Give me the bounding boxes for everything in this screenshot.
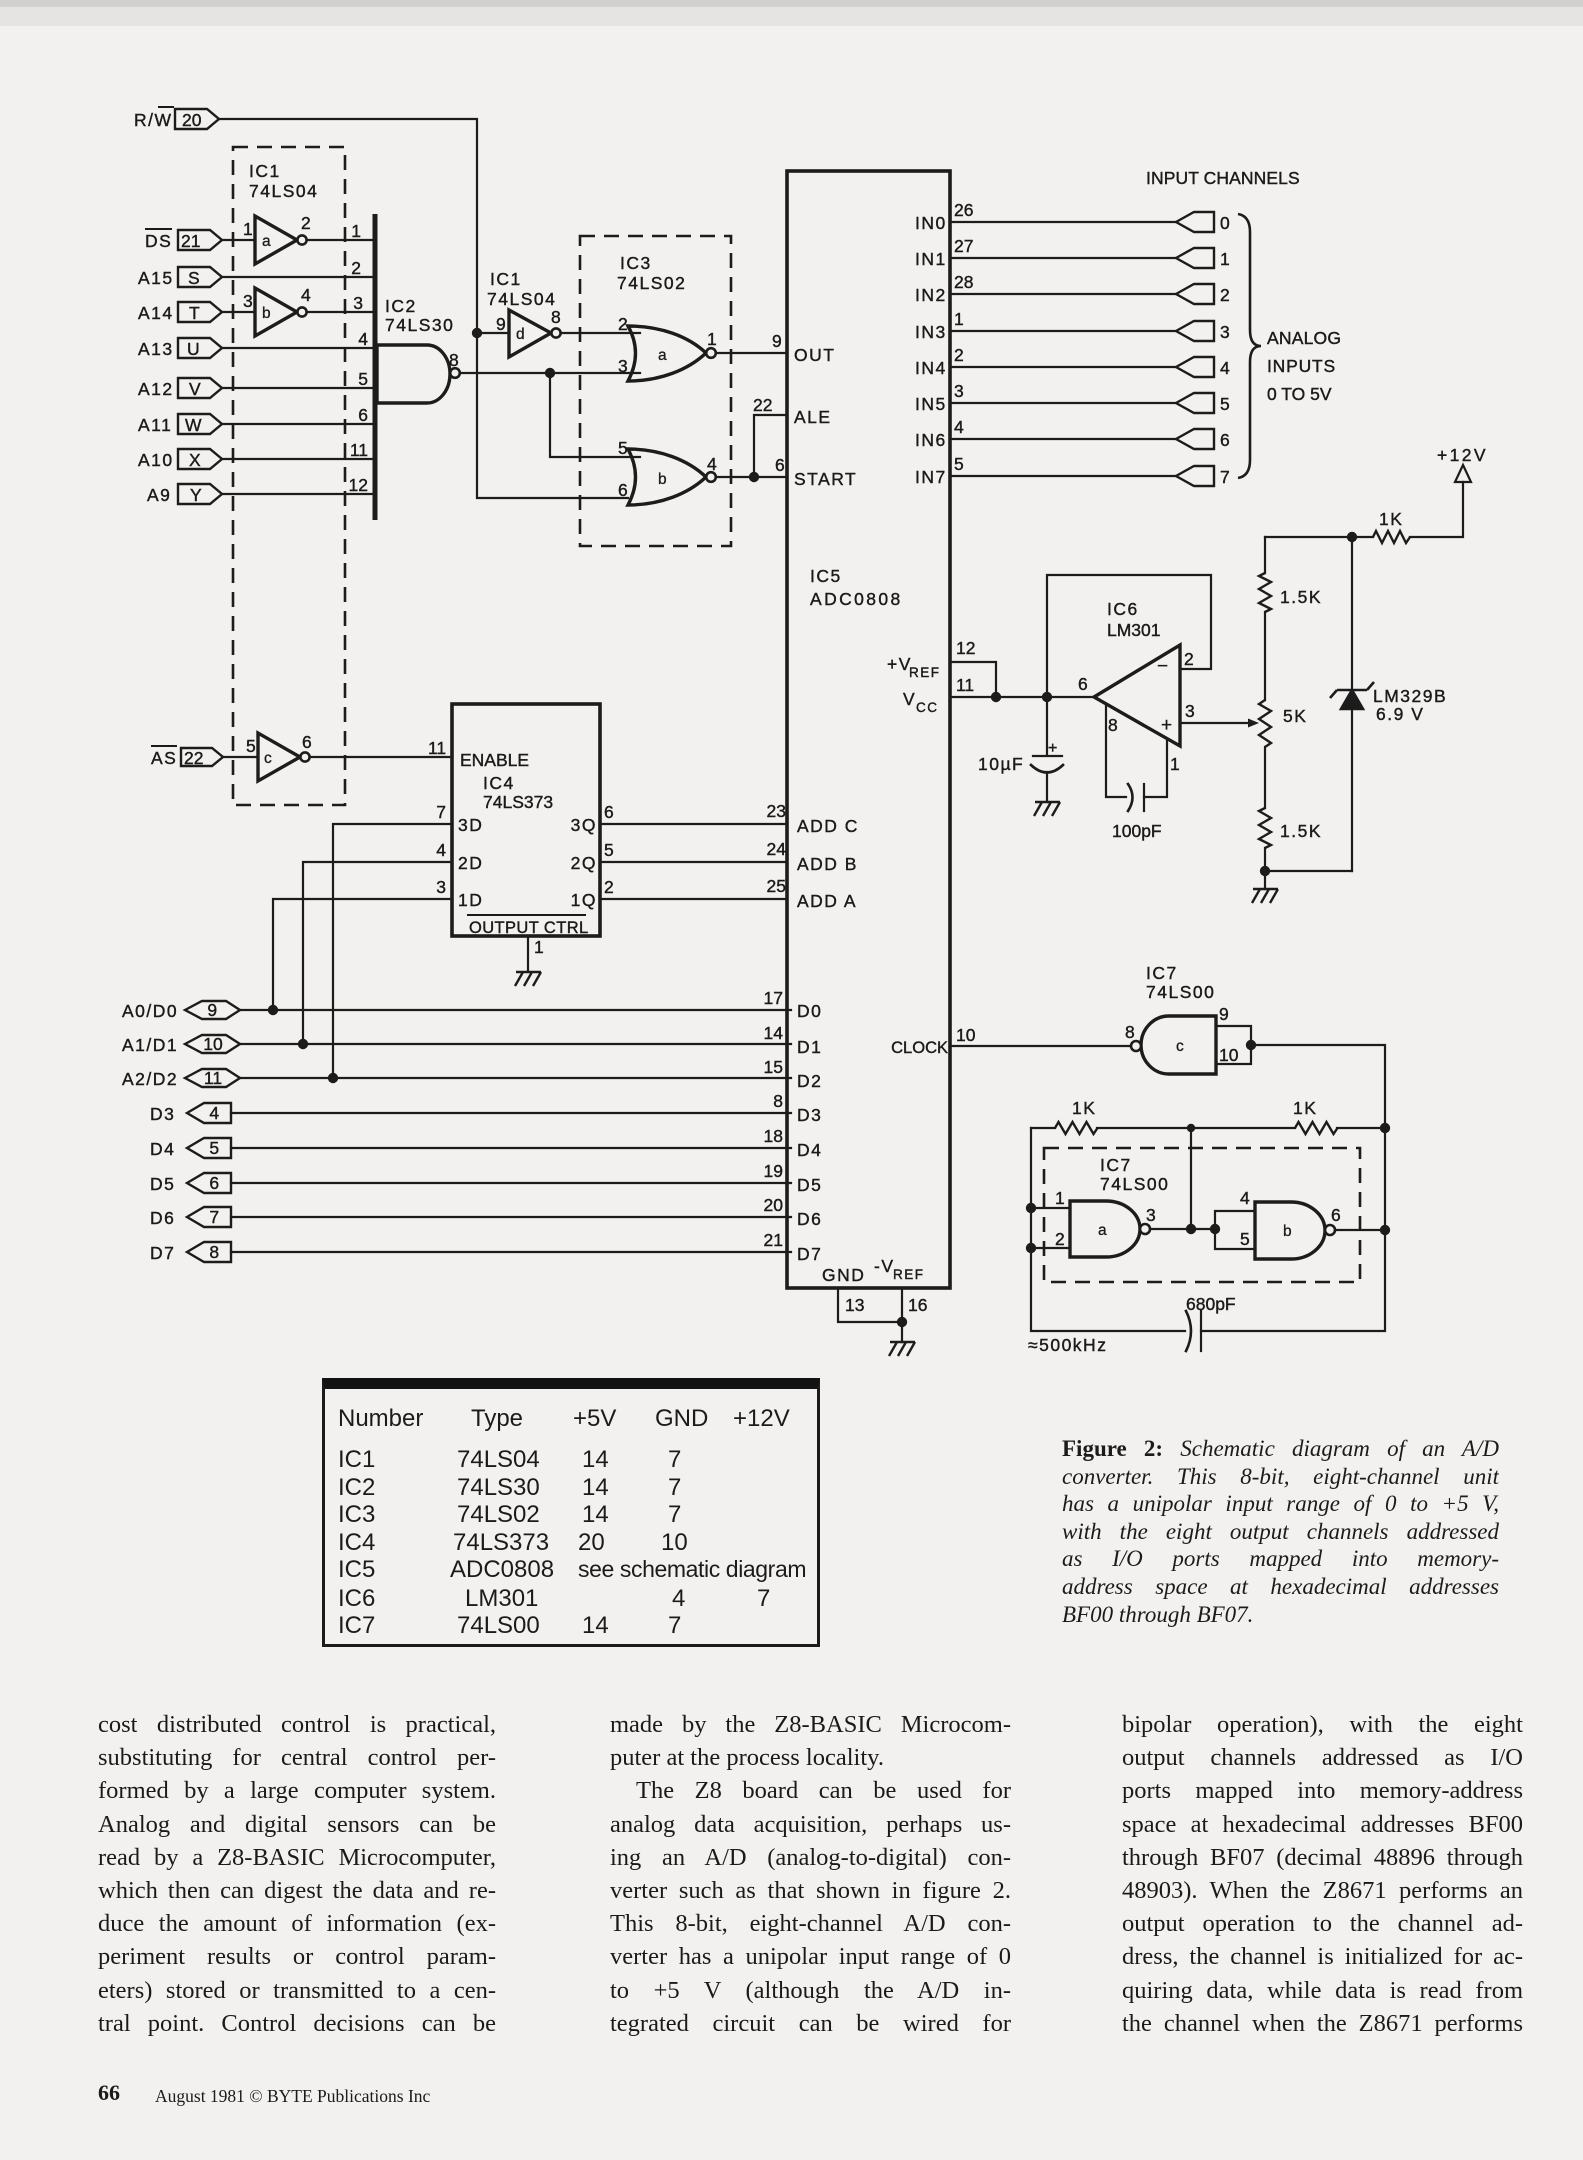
svg-text:ALE: ALE — [794, 407, 832, 427]
svg-text:GND: GND — [822, 1265, 865, 1285]
svg-text:IC7: IC7 — [1146, 963, 1178, 983]
svg-text:8: 8 — [209, 1242, 220, 1262]
svg-text:−: − — [1157, 656, 1168, 677]
svg-text:5: 5 — [604, 840, 614, 860]
svg-text:IN5: IN5 — [915, 394, 947, 414]
svg-text:2: 2 — [1184, 649, 1194, 669]
svg-text:5: 5 — [954, 454, 964, 474]
svg-text:+: + — [1161, 715, 1172, 736]
svg-text:+: + — [1048, 740, 1059, 757]
svg-text:74LS02: 74LS02 — [617, 273, 686, 293]
svg-text:1K: 1K — [1293, 1098, 1317, 1118]
svg-text:AS: AS — [151, 748, 177, 768]
svg-text:A11: A11 — [138, 415, 172, 435]
svg-text:START: START — [794, 469, 857, 489]
svg-text:23: 23 — [767, 801, 786, 821]
svg-text:4: 4 — [707, 454, 717, 474]
svg-text:IC6: IC6 — [1107, 599, 1139, 619]
svg-text:74LS04: 74LS04 — [249, 181, 318, 201]
svg-text:4: 4 — [358, 329, 368, 349]
svg-text:6.9 V: 6.9 V — [1376, 704, 1424, 724]
svg-text:a: a — [1098, 1222, 1107, 1239]
svg-text:8: 8 — [449, 350, 459, 370]
svg-text:1: 1 — [243, 219, 253, 239]
svg-text:6: 6 — [209, 1173, 220, 1193]
svg-text:ADD B: ADD B — [797, 854, 858, 874]
svg-text:24: 24 — [767, 839, 787, 859]
svg-text:3D: 3D — [458, 815, 483, 835]
svg-text:0 TO 5V: 0 TO 5V — [1267, 384, 1332, 404]
svg-text:22: 22 — [184, 748, 203, 768]
svg-text:1: 1 — [351, 221, 361, 241]
svg-text:7: 7 — [209, 1207, 220, 1227]
svg-text:IC3: IC3 — [620, 253, 652, 273]
svg-text:12: 12 — [349, 475, 368, 495]
svg-text:5: 5 — [618, 438, 628, 458]
svg-text:A0/D0: A0/D0 — [122, 1001, 178, 1021]
svg-text:74LS04: 74LS04 — [487, 289, 556, 309]
svg-text:0: 0 — [1220, 213, 1230, 233]
svg-text:3: 3 — [353, 293, 363, 313]
svg-text:2: 2 — [604, 877, 614, 897]
svg-text:8: 8 — [551, 307, 561, 327]
svg-text:CLOCK: CLOCK — [891, 1039, 948, 1057]
svg-text:IN6: IN6 — [915, 430, 947, 450]
svg-text:D5: D5 — [797, 1175, 822, 1195]
svg-text:27: 27 — [954, 236, 973, 256]
svg-text:3: 3 — [243, 291, 253, 311]
svg-text:D0: D0 — [797, 1001, 822, 1021]
svg-text:D7: D7 — [150, 1243, 175, 1263]
svg-text:4: 4 — [209, 1103, 220, 1123]
svg-text:A13: A13 — [138, 339, 174, 359]
svg-text:17: 17 — [764, 988, 783, 1008]
svg-text:9: 9 — [772, 331, 782, 351]
svg-text:11: 11 — [956, 675, 974, 695]
svg-text:b: b — [262, 305, 271, 322]
svg-text:S: S — [188, 268, 201, 288]
svg-text:28: 28 — [954, 272, 973, 292]
svg-text:b: b — [1283, 1223, 1292, 1240]
svg-text:16: 16 — [908, 1295, 927, 1315]
svg-text:7: 7 — [1220, 467, 1230, 487]
svg-text:11: 11 — [350, 440, 368, 460]
svg-text:INPUTS: INPUTS — [1267, 356, 1336, 376]
svg-text:DS: DS — [145, 231, 172, 251]
svg-text:4: 4 — [436, 840, 446, 860]
svg-text:-V: -V — [874, 1256, 895, 1276]
svg-text:2: 2 — [954, 345, 964, 365]
svg-text:U: U — [187, 339, 201, 359]
svg-text:10: 10 — [956, 1025, 976, 1045]
svg-text:Y: Y — [190, 485, 203, 505]
svg-text:D7: D7 — [797, 1244, 822, 1264]
svg-text:a: a — [658, 347, 667, 364]
svg-text:D3: D3 — [797, 1105, 822, 1125]
svg-text:12: 12 — [956, 638, 975, 658]
svg-text:3Q: 3Q — [571, 815, 597, 835]
svg-text:11: 11 — [204, 1068, 222, 1088]
svg-text:IN7: IN7 — [915, 467, 947, 487]
svg-text:X: X — [189, 450, 202, 470]
svg-text:25: 25 — [767, 876, 786, 896]
svg-text:A2/D2: A2/D2 — [122, 1069, 178, 1089]
svg-text:D2: D2 — [797, 1071, 822, 1091]
svg-text:1Q: 1Q — [571, 890, 597, 910]
svg-text:74LS00: 74LS00 — [1146, 982, 1215, 1002]
svg-text:D5: D5 — [150, 1174, 175, 1194]
svg-text:20: 20 — [182, 110, 202, 130]
svg-text:IC7: IC7 — [1100, 1155, 1132, 1175]
svg-text:b: b — [658, 471, 667, 488]
svg-text:1.5K: 1.5K — [1280, 821, 1322, 841]
svg-text:100pF: 100pF — [1112, 821, 1162, 841]
svg-text:c: c — [264, 750, 272, 767]
svg-text:IC1: IC1 — [249, 161, 281, 181]
svg-text:1: 1 — [954, 309, 964, 329]
svg-text:D3: D3 — [150, 1104, 175, 1124]
svg-text:IN2: IN2 — [915, 285, 947, 305]
svg-text:IC1: IC1 — [490, 269, 522, 289]
svg-text:3: 3 — [1220, 322, 1230, 342]
svg-text:10: 10 — [1219, 1045, 1239, 1065]
svg-text:9: 9 — [207, 1000, 218, 1020]
svg-text:9: 9 — [496, 314, 506, 334]
svg-text:6: 6 — [358, 405, 368, 425]
svg-text:REF: REF — [893, 1267, 925, 1282]
svg-text:REF: REF — [909, 665, 941, 680]
svg-text:26: 26 — [954, 200, 973, 220]
svg-text:3: 3 — [1146, 1205, 1156, 1225]
svg-text:D4: D4 — [150, 1139, 175, 1159]
svg-text:A9: A9 — [147, 485, 171, 505]
svg-text:6: 6 — [1220, 430, 1230, 450]
svg-text:A1/D1: A1/D1 — [122, 1035, 178, 1055]
svg-text:IN1: IN1 — [915, 249, 947, 269]
svg-text:ADC0808: ADC0808 — [810, 589, 903, 609]
svg-text:a: a — [262, 233, 271, 250]
svg-text:2: 2 — [301, 213, 311, 233]
svg-text:74LS30: 74LS30 — [385, 315, 454, 335]
svg-text:W: W — [185, 415, 203, 435]
svg-text:2: 2 — [618, 314, 628, 334]
svg-text:ENABLE: ENABLE — [460, 750, 529, 770]
svg-text:6: 6 — [604, 802, 614, 822]
svg-text:9: 9 — [1219, 1004, 1229, 1024]
svg-text:10: 10 — [203, 1034, 223, 1054]
svg-text:LM329B: LM329B — [1373, 686, 1447, 706]
svg-text:5: 5 — [1240, 1229, 1250, 1249]
svg-text:IN4: IN4 — [915, 358, 947, 378]
svg-text:c: c — [1176, 1038, 1184, 1055]
svg-text:4: 4 — [301, 285, 311, 305]
svg-text:ADD C: ADD C — [797, 816, 859, 836]
svg-text:18: 18 — [764, 1126, 783, 1146]
svg-text:10µF: 10µF — [978, 754, 1024, 774]
svg-text:15: 15 — [764, 1057, 783, 1077]
svg-text:6: 6 — [1331, 1205, 1341, 1225]
svg-text:d: d — [516, 326, 525, 343]
svg-text:D1: D1 — [797, 1037, 822, 1057]
svg-text:D4: D4 — [797, 1140, 822, 1160]
svg-text:680pF: 680pF — [1186, 1294, 1236, 1314]
svg-text:ANALOG: ANALOG — [1267, 328, 1341, 348]
svg-text:IC2: IC2 — [385, 296, 417, 316]
svg-text:8: 8 — [1125, 1022, 1135, 1042]
svg-text:2: 2 — [1220, 285, 1230, 305]
svg-text:D6: D6 — [797, 1209, 822, 1229]
svg-text:8: 8 — [773, 1091, 783, 1111]
svg-text:IC4: IC4 — [483, 773, 515, 793]
svg-text:1K: 1K — [1379, 509, 1403, 529]
svg-text:1: 1 — [1170, 754, 1180, 774]
svg-text:6: 6 — [618, 480, 628, 500]
svg-text:1: 1 — [1055, 1188, 1065, 1208]
svg-text:6: 6 — [302, 732, 312, 752]
svg-text:4: 4 — [1240, 1188, 1250, 1208]
svg-text:21: 21 — [764, 1230, 783, 1250]
svg-text:LM301: LM301 — [1107, 620, 1161, 640]
svg-text:5: 5 — [246, 736, 256, 756]
svg-text:IN0: IN0 — [915, 213, 947, 233]
svg-text:7: 7 — [436, 802, 446, 822]
svg-text:3: 3 — [954, 381, 964, 401]
svg-text:5K: 5K — [1283, 706, 1307, 726]
svg-text:2D: 2D — [458, 853, 483, 873]
svg-text:R/W: R/W — [134, 110, 173, 130]
svg-text:1D: 1D — [458, 890, 483, 910]
svg-text:≈500kHz: ≈500kHz — [1028, 1335, 1107, 1355]
svg-text:74LS373: 74LS373 — [483, 792, 553, 812]
svg-text:8: 8 — [1108, 715, 1118, 735]
svg-text:A14: A14 — [138, 303, 174, 323]
svg-text:1.5K: 1.5K — [1280, 587, 1322, 607]
svg-text:INPUT CHANNELS: INPUT CHANNELS — [1146, 168, 1300, 188]
svg-text:4: 4 — [954, 417, 964, 437]
svg-text:2: 2 — [351, 258, 361, 278]
svg-text:3: 3 — [1185, 701, 1195, 721]
svg-text:20: 20 — [764, 1195, 784, 1215]
svg-text:A10: A10 — [138, 450, 174, 470]
svg-text:V: V — [189, 379, 202, 399]
svg-text:5: 5 — [209, 1138, 220, 1158]
svg-text:OUTPUT CTRL: OUTPUT CTRL — [469, 919, 589, 937]
svg-text:ADD A: ADD A — [797, 891, 857, 911]
svg-text:A15: A15 — [138, 268, 174, 288]
svg-text:6: 6 — [1078, 674, 1088, 694]
svg-text:3: 3 — [618, 356, 628, 376]
svg-text:4: 4 — [1220, 358, 1230, 378]
svg-text:74LS00: 74LS00 — [1100, 1174, 1169, 1194]
svg-text:IN3: IN3 — [915, 322, 947, 342]
svg-text:T: T — [189, 303, 201, 323]
svg-text:1: 1 — [1220, 249, 1230, 269]
svg-text:2: 2 — [1055, 1229, 1065, 1249]
svg-text:IC5: IC5 — [810, 566, 842, 586]
svg-text:21: 21 — [181, 231, 200, 251]
svg-text:19: 19 — [764, 1161, 783, 1181]
svg-text:OUT: OUT — [794, 345, 835, 365]
svg-text:3: 3 — [436, 877, 446, 897]
svg-text:V: V — [903, 689, 916, 709]
svg-text:22: 22 — [753, 395, 772, 415]
svg-text:D6: D6 — [150, 1208, 175, 1228]
svg-text:A12: A12 — [138, 379, 174, 399]
svg-text:13: 13 — [845, 1295, 864, 1315]
svg-text:11: 11 — [428, 738, 446, 758]
svg-text:5: 5 — [1220, 394, 1230, 414]
svg-text:1: 1 — [707, 329, 717, 349]
svg-text:2Q: 2Q — [571, 853, 597, 873]
svg-text:+12V: +12V — [1437, 445, 1488, 465]
svg-text:14: 14 — [764, 1023, 784, 1043]
svg-text:1: 1 — [534, 937, 544, 957]
svg-text:6: 6 — [775, 455, 785, 475]
svg-text:1K: 1K — [1072, 1098, 1096, 1118]
svg-text:CC: CC — [916, 700, 939, 715]
svg-text:5: 5 — [358, 369, 368, 389]
